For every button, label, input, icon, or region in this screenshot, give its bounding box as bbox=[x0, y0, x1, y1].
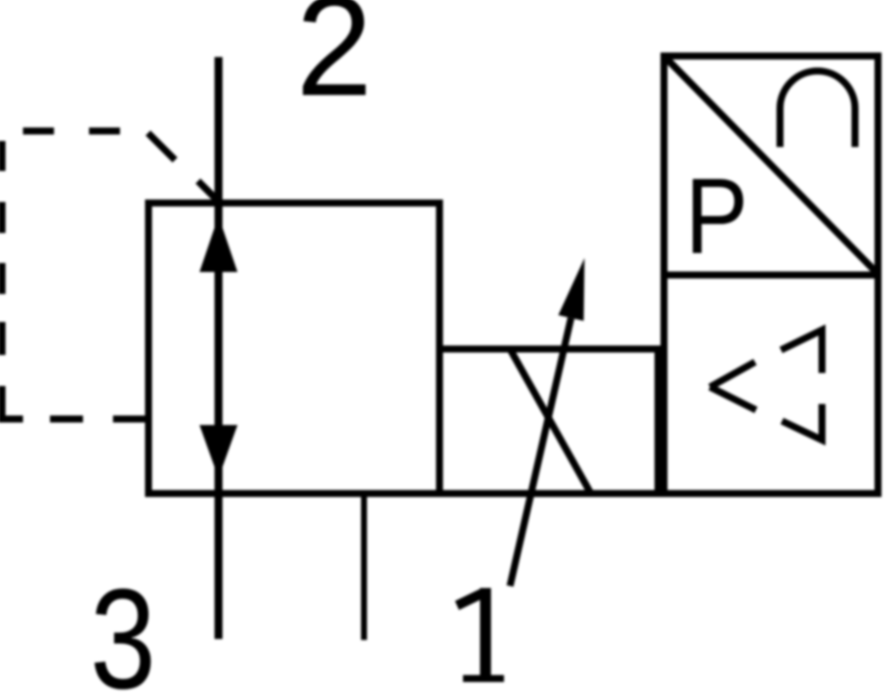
svg-text:3: 3 bbox=[90, 559, 156, 700]
svg-text:P: P bbox=[685, 155, 748, 276]
svg-text:2: 2 bbox=[296, 0, 372, 126]
